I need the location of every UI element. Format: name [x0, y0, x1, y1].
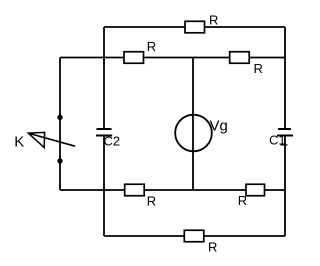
svg-text:Vg: Vg: [210, 117, 228, 134]
resistor R bottom: [184, 230, 204, 242]
source Vg: [175, 115, 212, 152]
svg-text:C2: C2: [104, 133, 121, 148]
wire outer left lower: [103, 136, 105, 237]
wire outer right upper: [284, 27, 286, 129]
svg-text:R: R: [254, 61, 263, 76]
wire outer right lower: [284, 136, 286, 237]
svg-text:R: R: [147, 39, 156, 54]
switch K blade: [28, 133, 75, 146]
svg-text:R: R: [208, 240, 217, 255]
wire middle branch: [192, 58, 194, 191]
node junction dot bottom: [57, 158, 62, 163]
wire row2 horizontal: [60, 57, 285, 59]
capacitor C2: [96, 129, 112, 136]
svg-text:K: K: [14, 133, 24, 150]
resistor R top: [185, 21, 205, 33]
wire outer bottom: [104, 235, 285, 237]
switch K arrowhead: [28, 132, 44, 147]
capacitor C1: [277, 129, 293, 136]
wire outer top: [104, 26, 285, 28]
resistor R row2 left: [124, 52, 144, 64]
resistor R row2 right: [230, 52, 250, 64]
svg-text:R: R: [238, 193, 247, 208]
wire left branch: [59, 58, 61, 191]
resistor R row4 left: [125, 184, 145, 196]
label C1 digit foot serif: [281, 144, 288, 146]
svg-text:R: R: [147, 194, 156, 209]
wire outer left upper: [103, 27, 105, 129]
resistor R row4 right: [246, 184, 265, 196]
node junction dot top: [57, 115, 62, 120]
wire row4 horizontal: [60, 189, 285, 191]
svg-text:R: R: [209, 12, 218, 27]
